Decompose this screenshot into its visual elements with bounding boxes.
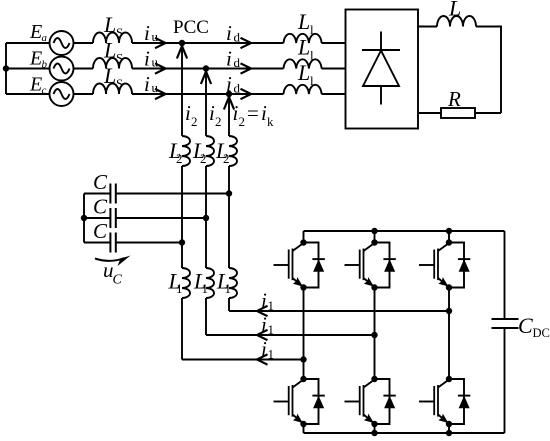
svg-text:R: R bbox=[447, 87, 461, 111]
inductor L2 branch 2 bbox=[206, 136, 214, 166]
wire L to right corner bbox=[476, 27, 501, 114]
current arrow id phase b bbox=[241, 63, 252, 73]
inverter top bus bbox=[304, 230, 505, 232]
label id phase a bbox=[226, 21, 241, 45]
node top bus leg 3 bbox=[446, 228, 452, 234]
left neutral bus wire bbox=[5, 43, 7, 94]
svg-text:i: i bbox=[226, 21, 232, 45]
current arrow i1 line 1 bbox=[257, 354, 268, 364]
label i2 = ik bbox=[233, 101, 275, 129]
svg-text:i: i bbox=[144, 21, 150, 45]
label L2 branch 3 bbox=[215, 138, 230, 166]
svg-text:L: L bbox=[297, 60, 310, 85]
label LS phase b bbox=[103, 38, 123, 66]
svg-text:u: u bbox=[152, 55, 159, 70]
wire phase c to rectifier bbox=[132, 93, 284, 95]
label L1 branch 2 bbox=[193, 269, 208, 297]
svg-text:L: L bbox=[297, 9, 310, 34]
wire branch 2 to leg 2 bbox=[206, 334, 375, 336]
node PCC phase a bbox=[179, 40, 185, 46]
label Ec bbox=[29, 74, 47, 97]
svg-text:2: 2 bbox=[200, 151, 207, 166]
capacitor star bus bbox=[83, 194, 85, 243]
inductor LS phase c bbox=[93, 84, 132, 95]
svg-text:2: 2 bbox=[223, 151, 230, 166]
rectifier diode symbol bbox=[362, 32, 400, 105]
inductor Ll phase a (line inductor) bbox=[284, 34, 322, 43]
voltage source Ec bbox=[50, 82, 74, 106]
node leg3 mid bbox=[446, 308, 452, 314]
node cap3 junction bbox=[179, 239, 185, 245]
current arrow i2 branch 2 bbox=[201, 72, 211, 85]
capacitor C row 2 bbox=[84, 208, 206, 228]
inductor L1 branch 2 bbox=[206, 268, 214, 298]
label i2 branch 1 bbox=[185, 101, 198, 129]
node PCC phase c bbox=[226, 91, 232, 97]
resistor R bbox=[441, 108, 475, 118]
svg-text:C: C bbox=[93, 195, 108, 219]
svg-text:i: i bbox=[144, 47, 150, 71]
svg-text:S: S bbox=[116, 25, 123, 40]
wire R to right corner bbox=[475, 112, 501, 114]
svg-text:l: l bbox=[310, 48, 314, 63]
label iu phase b bbox=[144, 47, 159, 71]
svg-text:d: d bbox=[234, 55, 241, 70]
wire phase a left bbox=[6, 42, 50, 44]
label L2 branch 1 bbox=[168, 138, 183, 166]
capacitor C row 1 bbox=[84, 184, 229, 204]
svg-text:l: l bbox=[310, 22, 314, 37]
svg-text:E: E bbox=[29, 21, 42, 43]
svg-text:S: S bbox=[116, 76, 123, 91]
transistor Q6 with diode (leg3 bottom) bbox=[419, 376, 470, 427]
label Ll phase a bbox=[297, 9, 314, 37]
leg 3 vertical wires bbox=[448, 231, 450, 433]
svg-text:PCC: PCC bbox=[173, 17, 209, 38]
current arrow i1 line 3 bbox=[257, 306, 268, 316]
node: neutral junction bbox=[3, 65, 9, 71]
rectifier block box bbox=[346, 10, 419, 129]
vertical wire branch 1 upper bbox=[181, 43, 183, 136]
svg-text:2: 2 bbox=[191, 114, 198, 129]
label iu phase a bbox=[144, 21, 159, 45]
voltage source Eb bbox=[50, 57, 74, 81]
node bottom bus leg 3 bbox=[446, 430, 452, 436]
node cap2 junction bbox=[203, 215, 209, 221]
current arrow id phase c bbox=[241, 89, 252, 99]
wire source c to Ls bbox=[74, 93, 94, 95]
label Eb bbox=[29, 48, 48, 71]
svg-text:i: i bbox=[261, 289, 267, 313]
label Ll phase c bbox=[297, 60, 314, 88]
label LS phase a bbox=[103, 12, 123, 40]
svg-text:L: L bbox=[448, 0, 461, 21]
svg-text:i: i bbox=[144, 72, 150, 96]
current arrow iu phase c bbox=[155, 89, 166, 99]
svg-text:1: 1 bbox=[268, 298, 275, 313]
svg-text:2: 2 bbox=[239, 114, 246, 129]
capacitor C row 3 bbox=[84, 233, 182, 253]
svg-text:S: S bbox=[116, 51, 123, 66]
inductor L2 branch 1 bbox=[182, 136, 190, 166]
current arrow i2=ik branch 3 bbox=[224, 97, 234, 110]
svg-text:b: b bbox=[42, 59, 48, 71]
inductor LS phase b bbox=[93, 58, 132, 69]
transistor Q5 with diode (leg3 top) bbox=[419, 239, 470, 290]
svg-text:i: i bbox=[226, 47, 232, 71]
label LS phase c bbox=[103, 63, 123, 91]
node bottom bus leg 2 bbox=[371, 430, 377, 436]
current arrow id phase a bbox=[241, 38, 252, 48]
inductor L1 branch 3 bbox=[229, 268, 237, 298]
svg-text:2: 2 bbox=[215, 114, 222, 129]
svg-text:i: i bbox=[261, 313, 267, 337]
wire source b to Ls bbox=[74, 68, 94, 70]
wire phase a to rectifier bbox=[132, 42, 284, 44]
svg-text:=: = bbox=[247, 101, 259, 125]
svg-text:L: L bbox=[297, 35, 310, 60]
svg-text:L: L bbox=[103, 12, 116, 37]
uC arrow bbox=[95, 256, 131, 267]
wire branch 3 to leg 3 bbox=[229, 310, 449, 312]
inverter bottom bus bbox=[304, 432, 505, 434]
svg-text:d: d bbox=[234, 81, 241, 96]
svg-text:E: E bbox=[29, 48, 42, 70]
svg-text:k: k bbox=[267, 114, 274, 129]
leg 2 vertical wires bbox=[374, 231, 376, 433]
node leg1 mid bbox=[300, 356, 306, 362]
svg-text:1: 1 bbox=[268, 347, 275, 362]
svg-text:1: 1 bbox=[225, 281, 232, 296]
current arrow i2 branch 1 bbox=[177, 46, 187, 59]
load inductor L bbox=[437, 16, 476, 26]
svg-text:u: u bbox=[152, 80, 159, 95]
svg-text:i: i bbox=[261, 337, 267, 361]
vertical wire branch 1 lower bbox=[181, 166, 183, 268]
transistor Q4 with diode (leg2 bottom) bbox=[345, 376, 396, 427]
inductor Ll phase b bbox=[284, 59, 322, 68]
svg-text:i: i bbox=[226, 72, 232, 96]
label iu phase c bbox=[144, 72, 159, 96]
node PCC phase b bbox=[203, 65, 209, 71]
svg-text:2: 2 bbox=[176, 151, 183, 166]
wire branch 1 to leg 1 bbox=[182, 359, 304, 361]
label L1 branch 1 bbox=[168, 269, 183, 297]
wire phase c left bbox=[6, 93, 50, 95]
label i2 branch 2 bbox=[209, 101, 222, 129]
svg-text:C: C bbox=[93, 170, 108, 194]
svg-text:a: a bbox=[42, 32, 48, 44]
transistor Q1 with diode (leg1 top) bbox=[274, 239, 325, 290]
svg-text:L: L bbox=[103, 63, 116, 88]
label i1 line 3 bbox=[261, 289, 274, 314]
label Ll phase b bbox=[297, 35, 314, 63]
svg-text:DC: DC bbox=[533, 326, 550, 340]
node leg2 mid bbox=[371, 332, 377, 338]
svg-text:d: d bbox=[234, 30, 241, 45]
label uC bbox=[103, 258, 123, 288]
svg-text:C: C bbox=[518, 313, 533, 338]
label id phase b bbox=[226, 47, 241, 71]
label L1 branch 3 bbox=[216, 269, 231, 297]
svg-text:1: 1 bbox=[176, 281, 183, 296]
svg-text:C: C bbox=[113, 273, 123, 288]
label i1 line 1 bbox=[261, 337, 274, 362]
voltage source Ea bbox=[50, 31, 74, 55]
label i1 line 2 bbox=[261, 313, 274, 338]
vertical wire branch 2 lower bbox=[205, 166, 207, 268]
svg-text:l: l bbox=[310, 73, 314, 88]
svg-text:1: 1 bbox=[268, 322, 275, 337]
inductor L2 branch 3 bbox=[229, 136, 237, 166]
current arrow iu phase b bbox=[155, 63, 166, 73]
transistor Q3 with diode (leg2 top) bbox=[345, 239, 396, 290]
label id phase c bbox=[226, 72, 241, 96]
wire phase b to rectifier bbox=[132, 68, 284, 70]
label L2 branch 2 bbox=[192, 138, 207, 166]
inductor LS phase a bbox=[93, 33, 132, 44]
label CDC bbox=[518, 313, 550, 340]
inductor L1 branch 1 bbox=[182, 268, 190, 298]
dc link capacitor CDC bbox=[492, 231, 519, 433]
vertical wire branch 3 upper bbox=[228, 94, 230, 136]
label Ea bbox=[29, 21, 48, 44]
current arrow iu phase a bbox=[155, 38, 166, 48]
vertical wire branch 3 lower bbox=[228, 166, 230, 268]
svg-text:u: u bbox=[152, 29, 159, 44]
node capacitor bus bbox=[81, 215, 87, 221]
svg-text:C: C bbox=[93, 219, 108, 243]
svg-text:1: 1 bbox=[202, 281, 209, 296]
vertical wire branch 2 upper bbox=[205, 69, 207, 137]
svg-text:c: c bbox=[42, 85, 47, 97]
wire phase b left bbox=[6, 68, 50, 70]
svg-text:L: L bbox=[103, 38, 116, 63]
wire source a to Ls bbox=[74, 42, 94, 44]
wire rectifier bottom output bbox=[418, 112, 441, 114]
inductor Ll phase c bbox=[284, 85, 322, 94]
node cap1 junction bbox=[226, 190, 232, 196]
leg 1 vertical wires bbox=[303, 231, 305, 433]
node top bus leg 2 bbox=[371, 228, 377, 234]
transistor Q2 with diode (leg1 bottom) bbox=[274, 376, 325, 427]
svg-text:E: E bbox=[29, 74, 42, 96]
current arrow i1 line 2 bbox=[257, 330, 268, 340]
wire rectifier top output bbox=[418, 26, 437, 28]
